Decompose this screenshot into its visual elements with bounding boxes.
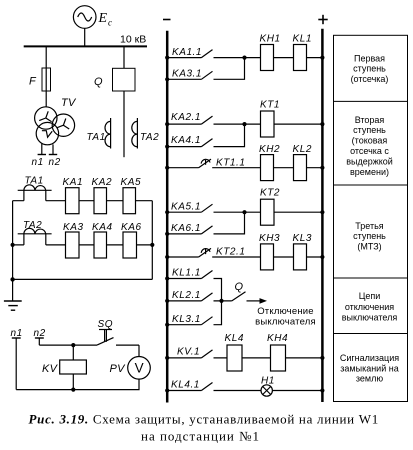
relay coil KH3	[261, 244, 274, 270]
wire left neutral conductor	[12, 201, 14, 301]
svg-text:H1: H1	[261, 375, 275, 386]
svg-text:выключателя: выключателя	[342, 313, 398, 323]
svg-text:KA1.1: KA1.1	[172, 47, 202, 58]
node plus KH3 row	[320, 255, 324, 259]
svg-text:TA2: TA2	[140, 132, 159, 143]
svg-text:Q: Q	[94, 76, 103, 88]
voltmeter PV	[128, 357, 151, 380]
relay coil KL1	[294, 45, 307, 71]
svg-text:10 кВ: 10 кВ	[120, 34, 146, 46]
svg-text:(МТЗ): (МТЗ)	[357, 241, 381, 251]
wire lamp to plus	[272, 390, 322, 392]
node plus row1	[320, 56, 324, 60]
svg-text:KL4.1: KL4.1	[171, 379, 200, 390]
node trip junction	[219, 299, 223, 303]
node plus KT2	[320, 210, 324, 214]
contact KA6.1	[165, 212, 244, 236]
svg-text:ступень: ступень	[353, 64, 386, 74]
svg-text:KA3: KA3	[63, 222, 84, 233]
svg-text:землю: землю	[356, 374, 383, 384]
contact KA2.1	[165, 112, 244, 126]
svg-text:Сигнализация: Сигнализация	[340, 353, 399, 363]
wire right return conductor	[151, 201, 153, 280]
svg-text:отсечка с: отсечка с	[350, 146, 389, 156]
text box first stage	[351, 53, 389, 84]
relay coil KV	[60, 345, 87, 390]
relay coil KA4	[94, 232, 107, 258]
contact KL1.1	[165, 268, 221, 301]
current transformer TA2 (primary symbol)	[132, 118, 138, 149]
contact KA5.1	[165, 201, 244, 214]
svg-text:PV: PV	[110, 363, 127, 375]
svg-text:времени): времени)	[350, 167, 389, 177]
text box second stage	[346, 115, 393, 177]
svg-text:KA4.1: KA4.1	[171, 135, 201, 146]
relay coil KA6	[123, 232, 137, 258]
pushbutton SQ	[97, 330, 139, 346]
svg-text:n2: n2	[49, 157, 61, 168]
node on right return	[150, 243, 154, 247]
svg-text:KH1: KH1	[260, 33, 281, 44]
relay coil KH2	[261, 155, 274, 181]
svg-text:Рис. 3.19. Схема защиты, устан: Рис. 3.19. Схема защиты, устанавливаемой…	[29, 412, 379, 427]
voltage transformer TV	[35, 107, 75, 145]
svg-text:KA4: KA4	[92, 222, 113, 233]
label Ec	[98, 11, 113, 28]
text box earth-fault signalling	[340, 353, 399, 384]
wire TA1 row	[13, 200, 153, 202]
node KV bottom	[71, 388, 75, 392]
contact Q (breaker auxiliary)	[222, 281, 246, 301]
wire KH2-KL2	[274, 167, 323, 169]
relay coil KT1	[261, 111, 275, 137]
label minus	[163, 19, 171, 21]
wire KL4-KH4	[242, 357, 322, 359]
wire to voltmeter	[138, 345, 140, 356]
svg-text:выдержкой: выдержкой	[346, 156, 393, 166]
wire bus to fuse	[45, 46, 47, 106]
svg-text:KT2: KT2	[260, 188, 280, 199]
svg-text:ступень: ступень	[353, 231, 386, 241]
svg-text:KT1.1: KT1.1	[216, 157, 245, 168]
svg-text:TV: TV	[61, 97, 77, 109]
svg-text:KV: KV	[42, 363, 59, 375]
node left bottom	[10, 277, 14, 281]
svg-text:KL2: KL2	[293, 144, 312, 155]
svg-text:на подстанции №1: на подстанции №1	[141, 429, 260, 444]
svg-text:n1: n1	[11, 328, 23, 339]
svg-text:TA2: TA2	[23, 220, 42, 231]
label plus	[318, 15, 327, 24]
arrow to trip coil	[247, 298, 268, 304]
node row KT2	[242, 210, 246, 214]
wire KH3-KL3	[274, 256, 323, 258]
svg-text:KT1: KT1	[260, 100, 280, 111]
svg-text:выключателя: выключателя	[255, 316, 316, 327]
svg-text:отключения: отключения	[345, 302, 394, 312]
wire source to bus	[84, 28, 86, 46]
svg-text:KV.1: KV.1	[177, 346, 200, 357]
TA1 secondary winding	[18, 185, 52, 201]
lamp H1	[261, 375, 275, 396]
svg-text:KL3: KL3	[293, 233, 312, 244]
wire row KT1	[245, 123, 323, 125]
wire voltage circuit bottom	[16, 379, 139, 390]
node plus KV row	[320, 356, 324, 360]
relay coil KA1	[66, 188, 80, 214]
svg-text:n1: n1	[32, 157, 44, 168]
svg-text:KA5.1: KA5.1	[171, 201, 201, 212]
svg-text:KA5: KA5	[121, 177, 142, 188]
svg-text:ступень: ступень	[353, 125, 386, 135]
text Отключение выключателя	[255, 306, 316, 327]
contact KL2.1	[165, 290, 221, 303]
svg-text:KL1.1: KL1.1	[172, 268, 201, 279]
svg-text:KA6: KA6	[121, 222, 142, 233]
fuse F	[42, 68, 51, 91]
annotation boxes frame	[334, 35, 408, 401]
svg-text:KL2.1: KL2.1	[172, 290, 201, 301]
node plus KT1	[320, 122, 324, 126]
terminal n2	[35, 338, 44, 345]
svg-text:KH3: KH3	[259, 233, 280, 244]
svg-text:KH4: KH4	[267, 333, 288, 344]
relay coil KL2	[294, 155, 307, 181]
source G1 (system EMF)	[73, 6, 96, 29]
node row KT1	[242, 122, 246, 126]
svg-text:KA6.1: KA6.1	[171, 223, 201, 234]
node KV top	[71, 343, 75, 347]
svg-text:KA3.1: KA3.1	[172, 68, 202, 79]
wire row1 to coils	[245, 57, 323, 59]
relay coil KA2	[94, 188, 107, 214]
relay coil KL3	[294, 244, 307, 270]
relay coil KL4	[227, 345, 242, 371]
relay coil KH4	[271, 345, 286, 371]
node plus lamp row	[320, 388, 324, 392]
contact KA3.1	[165, 58, 244, 82]
contact KT1.1 (time delay)	[165, 157, 260, 169]
svg-text:KA2: KA2	[92, 177, 113, 188]
contact KA1.1	[165, 47, 244, 60]
svg-text:n2: n2	[34, 328, 46, 339]
line W1 feeder wire	[123, 91, 125, 157]
wire row KT2	[245, 211, 323, 213]
terminal n1	[12, 338, 21, 390]
TV secondary leads n1 n2	[38, 144, 58, 155]
relay coil KA5	[123, 188, 136, 214]
svg-text:замыканий на: замыканий на	[340, 363, 398, 373]
svg-text:E: E	[98, 11, 108, 26]
svg-text:V: V	[135, 361, 144, 376]
svg-text:F: F	[29, 76, 37, 88]
node row1	[242, 56, 246, 60]
svg-text:KL3.1: KL3.1	[172, 314, 201, 325]
wire bus to breaker	[123, 46, 125, 68]
svg-text:(отсечка): (отсечка)	[351, 74, 389, 84]
svg-text:c: c	[108, 18, 112, 28]
contact KL4.1	[165, 379, 261, 392]
circuit breaker Q	[113, 68, 136, 91]
svg-text:TA1: TA1	[87, 132, 106, 143]
plus bus	[321, 29, 324, 402]
wire bottom return	[13, 278, 153, 280]
busbar 10 kV	[24, 45, 147, 47]
svg-text:KL4: KL4	[225, 333, 244, 344]
svg-text:KA2.1: KA2.1	[171, 112, 201, 123]
svg-text:Вторая: Вторая	[355, 115, 385, 125]
contact KA4.1	[165, 124, 244, 149]
svg-text:KL1: KL1	[293, 33, 312, 44]
relay coil KH1	[261, 45, 274, 71]
contact KL3.1	[165, 301, 221, 327]
svg-text:Q: Q	[235, 281, 244, 293]
node plus KH2 row	[320, 166, 324, 170]
minus bus	[166, 31, 169, 403]
svg-text:KH2: KH2	[259, 144, 280, 155]
node left row2	[11, 243, 15, 247]
svg-text:(токовая: (токовая	[352, 136, 388, 146]
svg-text:KT2.1: KT2.1	[216, 247, 245, 258]
svg-text:TA1: TA1	[25, 176, 44, 187]
svg-text:SQ: SQ	[98, 319, 114, 330]
contact KV.1	[165, 346, 227, 360]
current transformer TA1 (primary symbol)	[105, 118, 111, 149]
wire voltage circuit top	[39, 344, 97, 346]
svg-text:KA1: KA1	[63, 177, 84, 188]
wire TA2 row	[13, 244, 153, 246]
svg-text:Цепи: Цепи	[359, 291, 381, 301]
contact KT2.1 (time delay)	[165, 247, 260, 260]
TA2 secondary winding	[18, 228, 52, 245]
text box third stage	[353, 221, 386, 251]
text box trip circuits	[342, 291, 398, 323]
svg-text:Первая: Первая	[354, 53, 385, 63]
relay coil KT2	[261, 199, 275, 225]
relay coil KA3	[66, 232, 80, 258]
svg-text:Третья: Третья	[355, 221, 384, 231]
ground	[4, 301, 22, 310]
